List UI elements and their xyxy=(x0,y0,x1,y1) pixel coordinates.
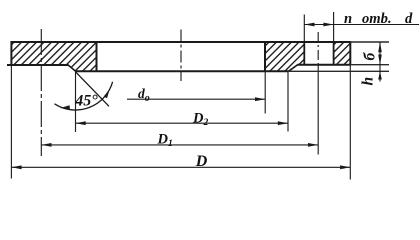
flange right outer edge xyxy=(349,41,351,64)
flange right section hatch (outside bolt hole) xyxy=(334,42,351,65)
extension line d0 right xyxy=(264,71,266,113)
dimension h xyxy=(379,65,381,82)
dimension line n otv d xyxy=(304,24,419,26)
flange right section hatch (between bore and bolt hole) xyxy=(265,42,304,71)
arc arrow right xyxy=(104,89,110,98)
extension line D2 left (boss edge) xyxy=(75,71,77,132)
extension line top face right xyxy=(350,41,389,43)
dimension line D xyxy=(11,166,350,168)
left boss chamfer xyxy=(68,65,76,72)
dimension line D2 xyxy=(76,122,289,124)
right boss chamfer xyxy=(289,65,298,72)
svg-text:do: do xyxy=(138,86,150,104)
svg-text:45°: 45° xyxy=(74,92,98,109)
svg-text:h: h xyxy=(360,77,377,86)
svg-text:отb.: отb. xyxy=(362,11,392,27)
extension line boss bottom right xyxy=(289,70,389,72)
flange left section hatch xyxy=(11,42,97,71)
extension line left outer xyxy=(10,65,12,179)
dimension line D1 xyxy=(41,144,318,146)
bolt hole left wall xyxy=(303,42,305,64)
svg-text:D2: D2 xyxy=(192,110,208,128)
svg-text:d: d xyxy=(405,11,413,27)
bolt hole right wall xyxy=(333,42,335,64)
svg-text:D1: D1 xyxy=(157,132,173,150)
bolt hole centerline xyxy=(317,32,319,64)
bore left wall xyxy=(96,41,98,71)
svg-text:n: n xyxy=(344,11,352,27)
arc arrow left xyxy=(60,105,70,109)
extension line D2 right (boss edge) xyxy=(287,71,289,131)
dimension line d0 xyxy=(127,98,265,100)
boss bottom line (seen through bore) xyxy=(76,70,289,72)
bolt hole axis extension down (D1 right extension) xyxy=(317,64,319,155)
svg-text:б: б xyxy=(362,52,379,61)
45 deg arc xyxy=(55,82,113,110)
extension line rim bottom right xyxy=(350,64,389,66)
dimension b vertical line xyxy=(379,42,381,65)
flange top face line xyxy=(11,41,351,43)
flange rim bottom right xyxy=(298,64,351,66)
svg-text:D: D xyxy=(195,153,208,170)
flange left outer edge xyxy=(10,41,12,64)
flange rim bottom left (with overshoot) xyxy=(7,64,68,66)
main centerline xyxy=(180,30,182,82)
45 deg chamfer leader xyxy=(76,72,110,107)
extension line right outer xyxy=(349,65,351,180)
bolt circle axis left xyxy=(40,29,42,156)
extension line bolt hole left up xyxy=(303,15,305,43)
bore right wall xyxy=(264,41,266,71)
extension line bolt hole right up xyxy=(333,12,335,42)
